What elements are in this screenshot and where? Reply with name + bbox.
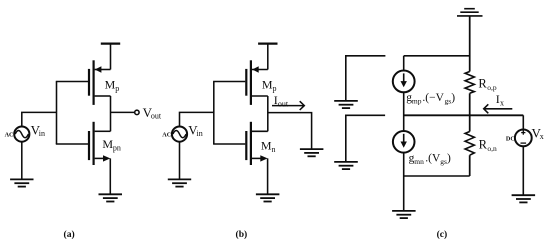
label V_in (a) (31, 123, 45, 139)
wire M_p drain to M_pn drain (a) (110, 96, 112, 131)
resistor R_o,p (c) (465, 72, 474, 94)
wire M_p drain to M_n drain (b) (267, 96, 269, 131)
svg-text:x: x (500, 99, 504, 108)
svg-text:gs: gs (440, 157, 447, 166)
svg-text:mn: mn (414, 157, 424, 166)
label V_x (c) (532, 126, 544, 142)
label AC (a) (5, 132, 14, 139)
label I_x (c) (496, 92, 504, 108)
wire current source 1 to mid node (c) (403, 92, 405, 131)
svg-text:M: M (262, 78, 273, 92)
svg-text:R: R (479, 137, 488, 151)
label M_p (b) (262, 78, 277, 94)
svg-text:.(−V: .(−V (422, 92, 444, 104)
ground bottom (c) (392, 211, 416, 218)
svg-text:): ) (447, 153, 451, 165)
svg-text:(b): (b) (236, 229, 248, 240)
node V_out open terminal (a) (135, 110, 139, 114)
svg-text:R: R (478, 76, 487, 90)
label R_o,n (c) (479, 137, 497, 153)
svg-text:n: n (272, 145, 276, 154)
wire input vertical (b) (213, 82, 215, 145)
wire main vertical top (c) (469, 16, 471, 72)
svg-text:mp: mp (412, 97, 422, 106)
power rail symbol top (c) (457, 9, 483, 16)
label g_mp.(-V_gs) (c) (406, 92, 455, 105)
transistor M_pn (a) NMOS (89, 122, 111, 165)
svg-text:M: M (261, 138, 272, 152)
wire V_x to ground (c) (522, 146, 524, 195)
label M_pn (a) (102, 137, 121, 153)
label g_mn.(V_gs) (c) (409, 153, 451, 166)
wire NMOS gate (b) (213, 143, 245, 145)
current source g_mn (c) (393, 131, 415, 153)
current source g_mp (c) (393, 71, 415, 93)
label V_in (b) (188, 123, 202, 139)
label R_o,p (c) (478, 76, 496, 92)
wire between resistors (c) (469, 93, 471, 131)
AC source V_in (b) (172, 127, 187, 142)
resistor R_o,n (c) (465, 132, 474, 156)
ground under AC source (b) (168, 179, 191, 186)
label I_out (b) (274, 93, 289, 109)
label (b) (236, 229, 248, 240)
power supply rail (b) (258, 42, 277, 44)
svg-text:AC: AC (5, 132, 14, 139)
svg-text:(c): (c) (437, 229, 448, 240)
ground under M_n (b) (256, 194, 280, 201)
arrow I_out (b) (272, 101, 304, 110)
svg-text:(a): (a) (64, 229, 75, 240)
wire current source 2 to bottom (c) (403, 153, 405, 211)
wire PMOS gate (b) (213, 81, 245, 83)
svg-text:M: M (102, 137, 113, 151)
svg-text:in: in (39, 129, 45, 138)
wire upper branch (c) (404, 55, 470, 57)
svg-text:AC: AC (162, 132, 171, 139)
wire to current source 1 (c) (403, 56, 405, 71)
wire mid node to V_x source (c) (522, 115, 524, 129)
svg-text:.(V: .(V (425, 153, 441, 165)
svg-text:o,p: o,p (487, 83, 497, 92)
power supply rail (a) (101, 42, 120, 44)
transistor M_p (b) PMOS (246, 60, 267, 105)
svg-text:in: in (197, 129, 203, 138)
label V_out (a) (143, 105, 162, 121)
AC source V_in (a) (14, 127, 29, 142)
svg-text:): ) (451, 92, 455, 104)
label DC (c) (506, 135, 515, 142)
wire AC top to input node (a) (22, 112, 57, 126)
wire AC bottom (a) (21, 141, 23, 179)
wire resistor bottom to node (c) (469, 155, 471, 176)
svg-text:x: x (540, 132, 544, 141)
label M_n (b) (261, 138, 276, 154)
svg-text:gs: gs (445, 97, 452, 106)
wire M_pn source to ground (a) (109, 158, 111, 194)
wire input vertical (a) (56, 82, 58, 145)
label AC (b) (162, 132, 171, 139)
wire AC top to input node (b) (180, 112, 214, 126)
label M_p (a) (105, 78, 120, 94)
transistor M_n (b) NMOS (246, 122, 267, 165)
transistor M_p (a) PMOS (89, 60, 111, 105)
wire output branch (a) (111, 111, 135, 113)
ground under V_x (c) (512, 195, 535, 202)
svg-text:M: M (105, 78, 116, 92)
svg-text:out: out (278, 99, 289, 108)
ground lower-left (c) (334, 162, 358, 169)
ground under AC source (a) (10, 179, 33, 186)
label (a) (64, 229, 75, 240)
gate stub to ground upper-left (c) (346, 56, 386, 101)
svg-text:o,n: o,n (487, 144, 497, 153)
wire bottom branch (c) (404, 175, 470, 177)
ground upper-left (c) (334, 101, 358, 108)
wire PMOS gate (a) (56, 81, 88, 83)
svg-text:pn: pn (113, 144, 121, 153)
svg-text:DC: DC (506, 135, 515, 142)
label (c) (437, 229, 448, 240)
gate stub to ground lower-left (c) (346, 115, 385, 162)
wire mid branch (c) (404, 114, 524, 116)
ground under M_pn (a) (99, 194, 123, 201)
ground at output (b) (300, 149, 324, 156)
DC source V_x (c) (515, 130, 532, 147)
wire supply to M_p source (a) (110, 44, 112, 70)
wire output to ground (b) (268, 113, 312, 150)
svg-text:p: p (273, 84, 277, 93)
svg-text:out: out (151, 112, 162, 121)
wire AC bottom (b) (179, 141, 181, 179)
wire supply to M_p source (b) (267, 44, 269, 70)
arrow I_x (c) (484, 104, 513, 113)
wire NMOS gate (a) (56, 143, 88, 145)
wire M_n source to ground (b) (267, 158, 269, 194)
svg-text:p: p (115, 84, 119, 93)
